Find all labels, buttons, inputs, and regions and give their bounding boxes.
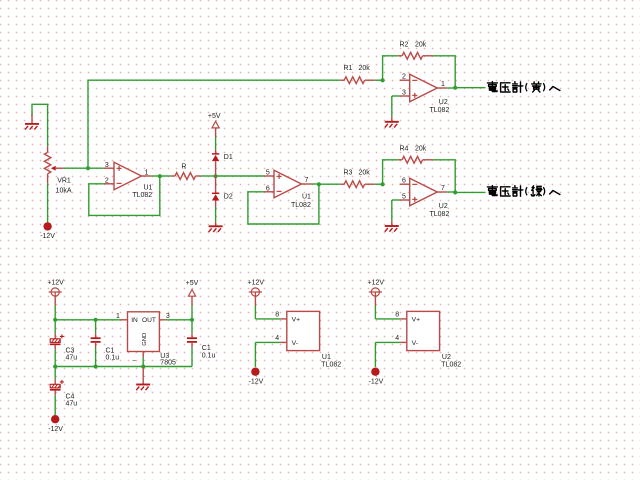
svg-text:20k: 20k — [359, 65, 371, 72]
diode D1 — [215, 150, 217, 154]
op-amp U2 (unit A) TL082 — [400, 79, 410, 81]
svg-text:R2: R2 — [400, 42, 409, 49]
svg-text:R: R — [181, 164, 186, 171]
svg-text:10kA: 10kA — [56, 187, 72, 194]
power -12V (U1 supply) — [251, 368, 259, 376]
svg-text:V+: V+ — [412, 316, 421, 323]
wire: wiper to U1 pin 3 — [64, 167, 104, 169]
svg-text:3: 3 — [105, 162, 109, 169]
wire: U1B output node + feedback loop — [312, 183, 319, 185]
svg-text:7805: 7805 — [160, 360, 176, 367]
svg-text:R4: R4 — [400, 146, 409, 153]
power -12V (below C4) — [51, 415, 59, 423]
wire: U2 pin 4 to -12V — [400, 341, 407, 343]
svg-text:TL082: TL082 — [321, 361, 341, 368]
svg-text:U2: U2 — [442, 354, 451, 361]
node: U2A output junction — [447, 87, 455, 89]
svg-text:4: 4 — [275, 335, 279, 342]
node: U2A inverting input junction — [381, 78, 385, 82]
op-amp U1 (unit B) TL082 — [264, 175, 274, 177]
svg-text:2: 2 — [402, 74, 406, 81]
svg-text:C3: C3 — [66, 347, 75, 354]
resistor R1 20k — [340, 79, 344, 81]
ground (below D2) — [215, 207, 217, 221]
wire: +12V to U2 pin 8 — [375, 318, 400, 320]
label: 電圧計(黄)へ — [487, 82, 497, 92]
node: diode clamp junction — [214, 174, 218, 178]
svg-text:1: 1 — [441, 81, 445, 88]
svg-text:20k: 20k — [415, 146, 427, 153]
svg-text:D1: D1 — [224, 154, 233, 161]
op-amp U2 (unit B) TL082 — [400, 183, 410, 185]
svg-text:U2: U2 — [439, 203, 448, 210]
resistor R4 20k (feedback) — [383, 160, 399, 184]
svg-text:V+: V+ — [292, 316, 301, 323]
svg-text:U1: U1 — [302, 193, 311, 200]
svg-text:8: 8 — [275, 311, 279, 318]
svg-text:2: 2 — [105, 178, 109, 185]
resistor R3 20k — [319, 183, 340, 185]
wire: +12V rail to 7805 IN — [55, 319, 120, 321]
svg-text:-12V: -12V — [249, 378, 264, 385]
node: U2B inverting input junction — [381, 182, 385, 186]
svg-text:V-: V- — [292, 340, 298, 347]
svg-text:-12V: -12V — [48, 426, 63, 433]
svg-text:TL082: TL082 — [441, 361, 461, 368]
svg-text:C1: C1 — [202, 345, 211, 352]
regulator U3 7805 — [121, 319, 128, 321]
svg-text:GND: GND — [142, 333, 148, 346]
svg-text:U1: U1 — [144, 184, 153, 191]
power-unit U1 TL082 (V+/V-) — [287, 311, 320, 350]
wire: long feedback rail from VR1 wiper node up to R1 — [88, 80, 340, 168]
svg-text:8: 8 — [395, 311, 399, 318]
svg-text:TL082: TL082 — [430, 211, 450, 218]
wire: regulator OUT to +5V — [159, 319, 165, 321]
svg-text:U1: U1 — [322, 354, 331, 361]
svg-text:V-: V- — [412, 340, 418, 347]
svg-text:D2: D2 — [224, 193, 233, 200]
svg-text:VR1: VR1 — [57, 177, 71, 184]
resistor R2 20k (feedback) — [383, 56, 399, 80]
ground (top-left) — [32, 104, 48, 146]
wire: output to label — [455, 191, 485, 193]
svg-text:47u: 47u — [66, 400, 78, 407]
svg-text:0.1u: 0.1u — [106, 355, 120, 362]
svg-text:-12V: -12V — [369, 378, 384, 385]
wire: clamp node to U1 pin 5 — [216, 175, 264, 177]
svg-text:+5V: +5V — [208, 113, 221, 120]
svg-text:IN: IN — [131, 317, 138, 324]
svg-text:+12V: +12V — [47, 279, 64, 286]
svg-text:~: ~ — [132, 357, 136, 364]
svg-text:R1: R1 — [344, 65, 353, 72]
svg-text:6: 6 — [266, 186, 270, 193]
power -12V (below VR1) — [47, 183, 49, 222]
wire: output to label — [455, 87, 485, 89]
op-amp U1 (unit A) TL082 — [104, 167, 114, 169]
ground (U2A pin 3) — [392, 95, 400, 97]
svg-text:C1: C1 — [106, 347, 115, 354]
wire: bottom ground rail — [55, 366, 192, 368]
svg-text:+12V: +12V — [368, 279, 385, 286]
power-unit U2 TL082 (V+/V-) — [407, 311, 440, 350]
wire: U1 pin 4 to -12V — [280, 341, 287, 343]
svg-text:+12V: +12V — [248, 279, 265, 286]
svg-text:C4: C4 — [66, 393, 75, 400]
svg-text:47u: 47u — [66, 355, 78, 362]
svg-text:1: 1 — [144, 169, 148, 176]
svg-text:5: 5 — [402, 194, 406, 201]
svg-text:5: 5 — [266, 170, 270, 177]
node: U2B output junction — [447, 191, 455, 193]
svg-text:TL082: TL082 — [430, 107, 450, 114]
svg-text:R3: R3 — [344, 170, 353, 177]
diode D2 — [215, 176, 217, 193]
svg-text:4: 4 — [395, 335, 399, 342]
svg-text:7: 7 — [441, 185, 445, 192]
svg-text:0.1u: 0.1u — [202, 352, 216, 359]
node: wiper junction — [86, 166, 90, 170]
svg-text:3: 3 — [166, 313, 170, 320]
svg-text:20k: 20k — [415, 42, 427, 49]
wire: U1A output node + feedback loop — [152, 175, 160, 177]
wire: +12V to U1 pin 8 — [255, 318, 280, 320]
regulator GND pin + ground — [142, 352, 144, 358]
svg-text:TL082: TL082 — [132, 192, 152, 199]
capacitor C1 0.1u (output) — [191, 320, 193, 333]
svg-text:7: 7 — [305, 177, 309, 184]
svg-text:6: 6 — [402, 178, 406, 185]
svg-text:TL082: TL082 — [291, 202, 311, 209]
capacitor C4 47u — [54, 367, 56, 380]
svg-text:+5V: +5V — [186, 280, 199, 287]
label: 電圧計(緑)へ — [487, 186, 497, 196]
power -12V (U2 supply) — [371, 368, 379, 376]
ground (U2B pin 5) — [392, 199, 400, 201]
svg-text:OUT: OUT — [142, 317, 156, 324]
resistor R — [160, 175, 171, 177]
svg-text:1: 1 — [116, 313, 120, 320]
svg-text:3: 3 — [402, 90, 406, 97]
capacitor C1 0.1u (input) — [95, 320, 97, 333]
svg-text:20k: 20k — [359, 170, 371, 177]
capacitor C3 47u — [54, 320, 56, 334]
potentiometer VR1 10kA — [47, 146, 49, 152]
svg-text:U2: U2 — [439, 99, 448, 106]
svg-text:-12V: -12V — [40, 233, 55, 240]
